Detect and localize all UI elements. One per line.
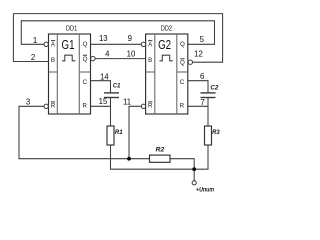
svg-text:Q: Q [180,41,185,48]
svg-text:B: B [148,57,152,64]
IC DD2 inversion circle pin12 [188,60,192,64]
wire C2 bottom to R3 top [207,98,209,127]
IC DD1 body [49,34,91,114]
svg-text:7: 7 [200,98,204,107]
IC DD1 inversion circle pin3 [44,104,48,108]
svg-text:Q: Q [83,41,88,48]
svg-text:10: 10 [127,50,136,59]
svg-text:4: 4 [105,50,110,59]
svg-text:Q: Q [180,59,185,66]
svg-text:G2: G2 [158,37,171,52]
wire Q1bar(4) to B2(10) [95,58,146,60]
IC DD1 pulse symbol [62,55,75,61]
svg-text:DD1: DD1 [66,24,77,33]
resistor R2 [150,155,171,162]
capacitor C1 [104,93,119,98]
wire pin14 to C1 top [91,81,111,93]
svg-text:B: B [51,57,55,64]
wire pin6 to C2 top [188,81,208,93]
wire Q1(13) to A2bar(9) [91,43,142,45]
wire R2 right to +U node [170,159,194,170]
svg-text:1: 1 [33,36,37,45]
resistor R1 [107,126,114,145]
svg-text:C1: C1 [113,83,121,90]
IC DD2 port labels [148,41,185,110]
svg-text:C: C [83,79,88,86]
wire R1bar(3) to bottom reset rail [19,106,150,158]
svg-text:5: 5 [200,35,205,44]
svg-text:R2: R2 [156,147,165,154]
svg-text:R: R [82,103,87,110]
capacitor C2 [201,93,216,98]
wire R2bar(11) down to reset rail [129,106,141,158]
svg-text:R: R [148,103,153,110]
svg-text:15: 15 [99,97,108,106]
svg-text:12: 12 [194,50,203,59]
svg-text:9: 9 [128,34,132,43]
IC DD2 inversion circle pin11 [141,104,145,108]
svg-text:14: 14 [100,72,109,81]
svg-text:C: C [180,79,185,86]
svg-text:DD2: DD2 [161,24,172,33]
svg-text:11: 11 [123,98,131,107]
resistor R3 [205,126,212,145]
svg-text:G1: G1 [62,37,75,52]
svg-text:R3: R3 [212,129,220,136]
wire pin15 [91,105,111,107]
svg-text:+Uпит: +Uпит [196,187,214,194]
IC DD2 pulse symbol [160,55,173,61]
svg-text:13: 13 [99,34,108,43]
wire C1 bottom to R1 top [110,98,112,127]
terminal +Upit [192,181,196,185]
svg-text:3: 3 [26,97,30,106]
svg-text:6: 6 [200,72,204,81]
svg-text:C2: C2 [210,85,218,92]
svg-text:R: R [51,103,56,110]
wire feedback outer loop Q2bar(12) to B(2) [13,14,222,63]
svg-text:2: 2 [31,53,35,62]
junction dot reset rail [127,157,131,161]
IC DD1 port labels [51,41,88,110]
wire feedback inner loop Q2(5) to A1bar(1) [21,21,214,45]
IC DD2 body [146,34,188,114]
IC DD1 inversion circle pin1 [44,42,48,46]
wire +U terminal stub [193,169,195,181]
svg-text:Q: Q [83,56,88,63]
IC DD2 inversion circle pin9 [141,42,145,46]
wire pin7 [188,105,208,107]
IC DD1 inversion circle pin4 [91,56,95,60]
wire lower supply rail R1 bottom to R3 bottom [111,145,209,169]
svg-text:R: R [180,103,185,110]
junction dot +U node [192,167,196,171]
svg-text:R1: R1 [115,129,123,136]
